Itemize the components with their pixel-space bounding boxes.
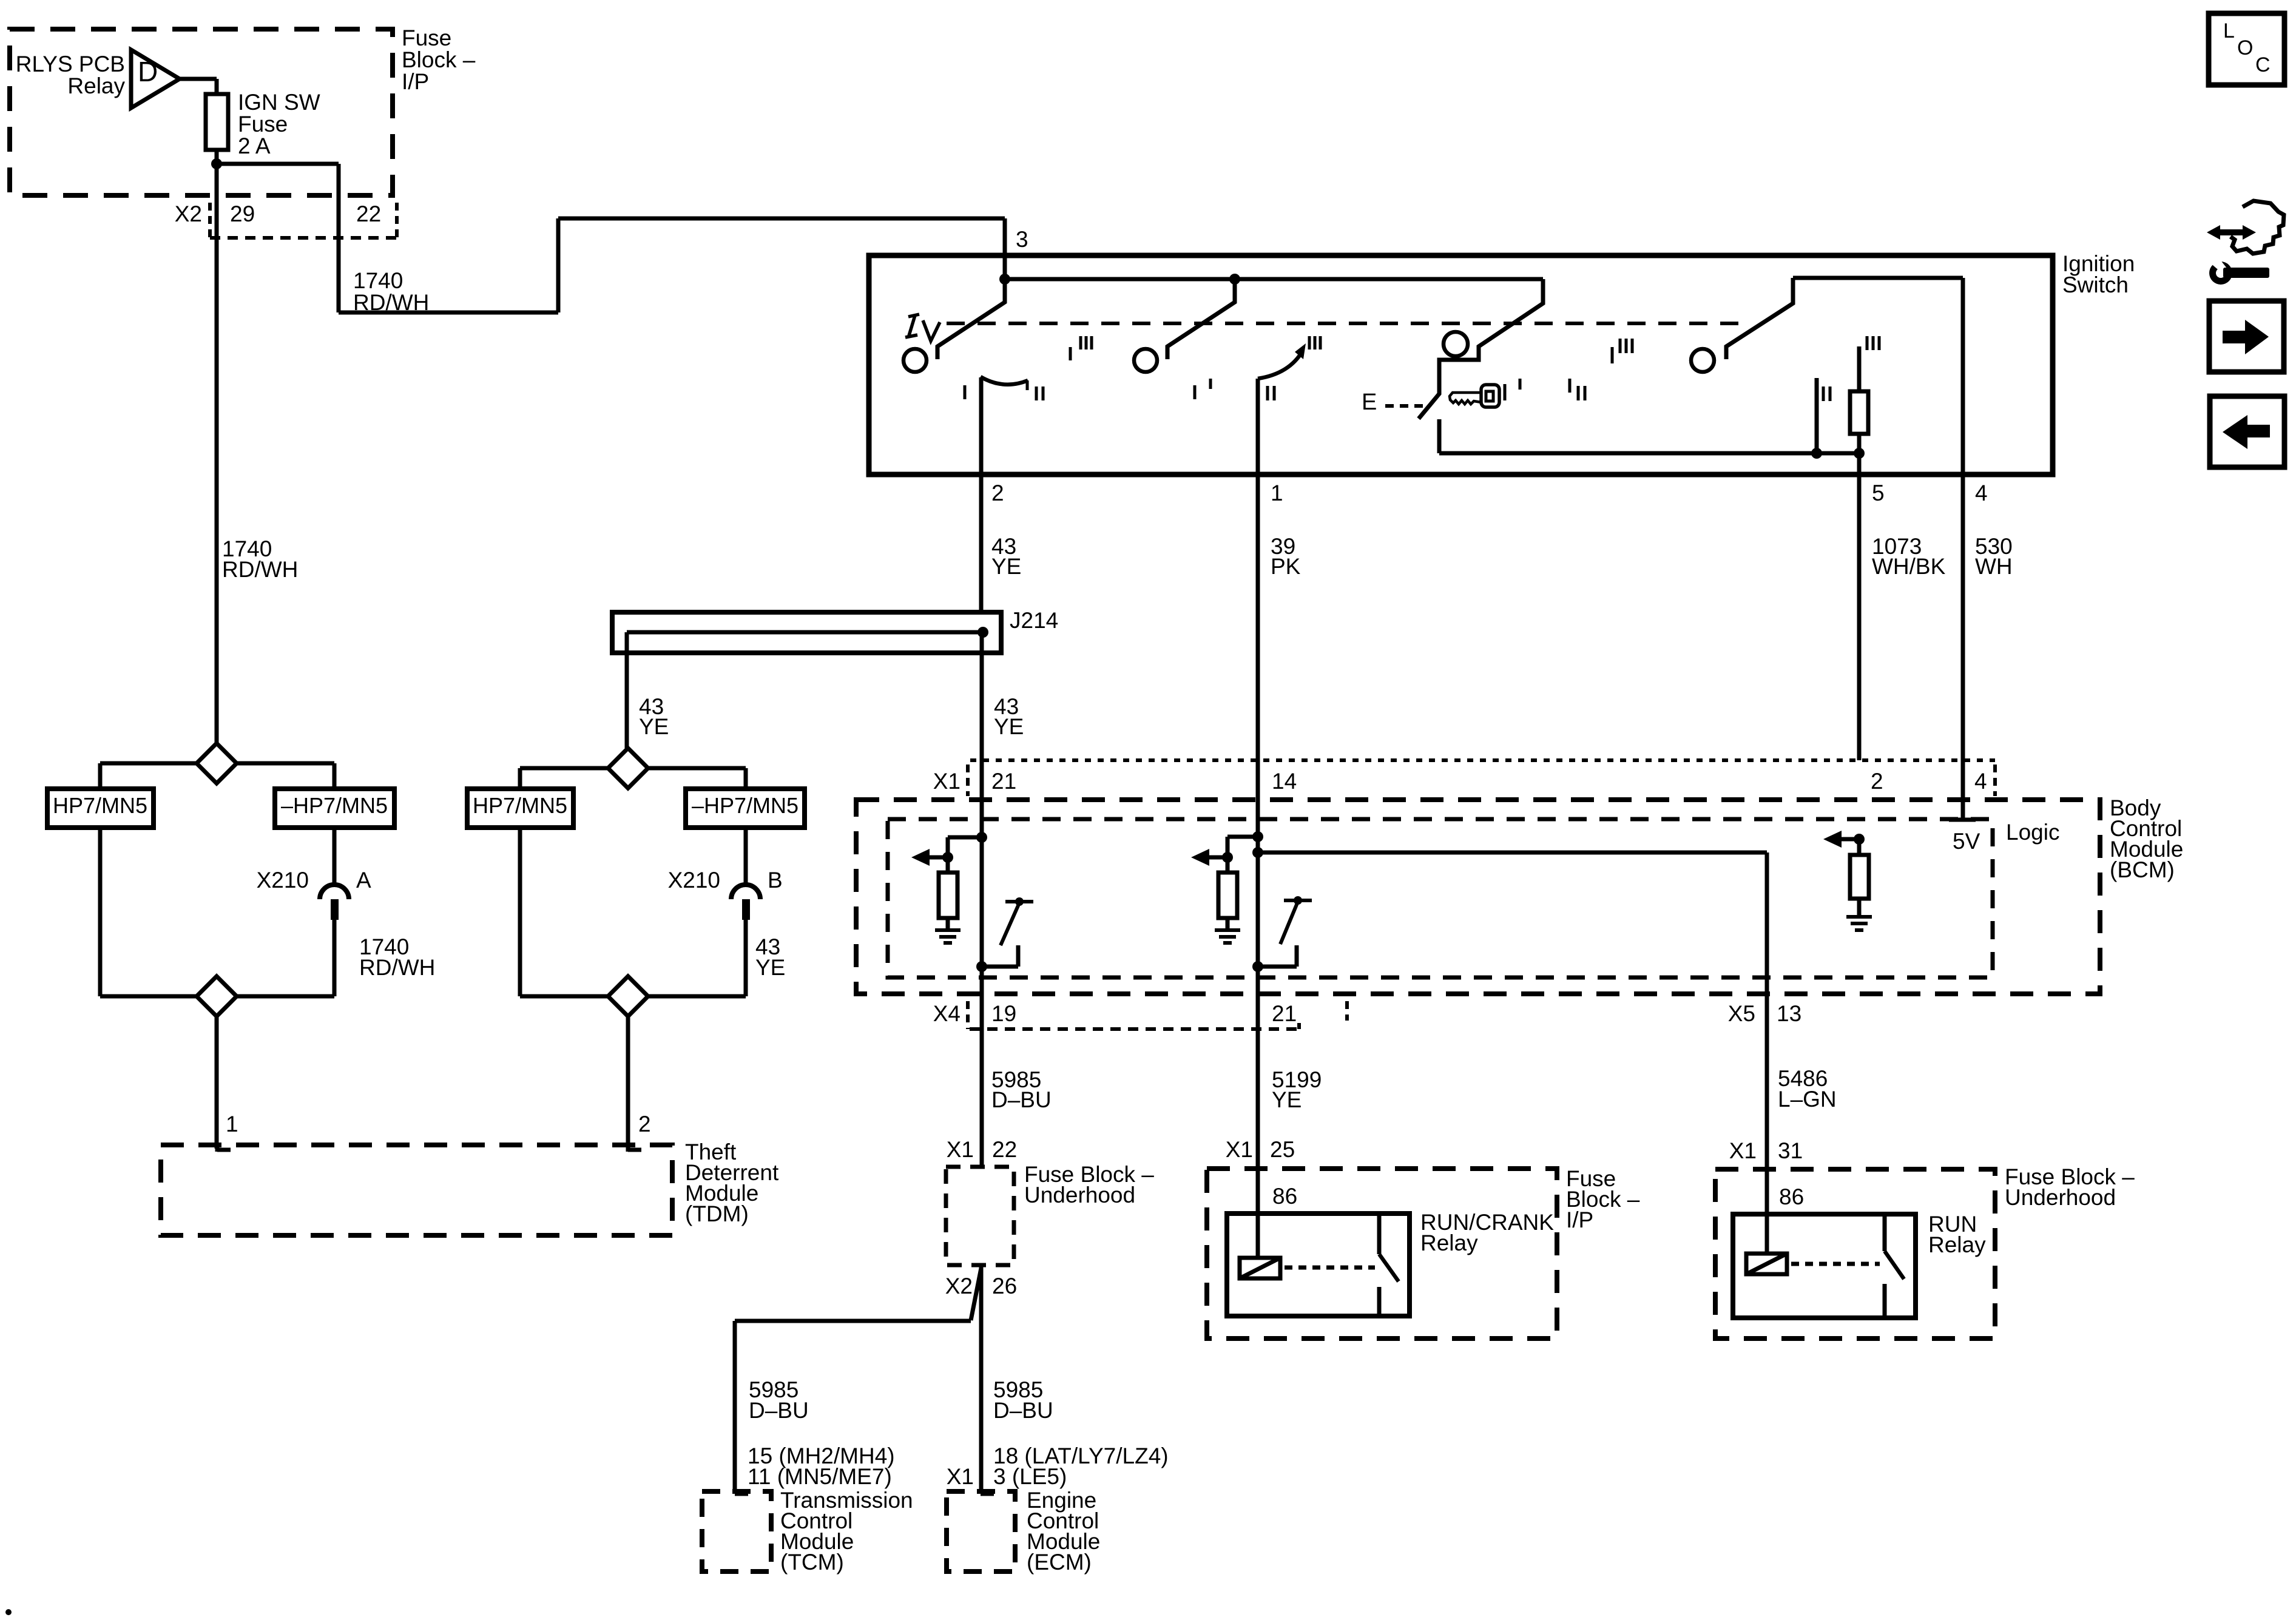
svg-text:1: 1 (226, 1112, 238, 1136)
svg-text:X1: X1 (947, 1464, 974, 1489)
svg-text:YE: YE (991, 554, 1021, 579)
svg-text:Underhood: Underhood (1024, 1183, 1135, 1207)
svg-text:Switch: Switch (2062, 272, 2129, 297)
svg-text:WH: WH (1975, 554, 2013, 579)
svg-text:(TCM): (TCM) (780, 1550, 844, 1575)
svg-text:1740: 1740 (353, 268, 403, 293)
svg-text:14: 14 (1272, 769, 1297, 794)
svg-text:A: A (356, 868, 371, 893)
svg-text:IGN SW: IGN SW (238, 90, 320, 115)
svg-text:X1: X1 (933, 769, 961, 794)
svg-text:(ECM): (ECM) (1027, 1550, 1092, 1575)
svg-text:X5: X5 (1728, 1001, 1755, 1026)
svg-text:2 A: 2 A (238, 133, 271, 158)
svg-text:D–BU: D–BU (749, 1398, 809, 1423)
svg-text:X4: X4 (933, 1001, 961, 1026)
svg-text:I/P: I/P (1566, 1207, 1593, 1232)
svg-text:25: 25 (1270, 1137, 1295, 1162)
svg-text:RD/WH: RD/WH (222, 557, 298, 582)
svg-text:3: 3 (1016, 227, 1028, 252)
svg-text:5: 5 (1872, 481, 1885, 505)
svg-text:22: 22 (992, 1137, 1017, 1162)
svg-text:D–BU: D–BU (991, 1087, 1052, 1112)
svg-text:WH/BK: WH/BK (1872, 554, 1946, 579)
svg-text:Logic: Logic (2006, 820, 2059, 845)
svg-text:29: 29 (230, 201, 255, 226)
svg-text:4: 4 (1975, 481, 1988, 505)
svg-text:–HP7/MN5: –HP7/MN5 (281, 793, 388, 818)
svg-text:D: D (138, 56, 158, 87)
svg-text:X1: X1 (1729, 1138, 1757, 1163)
svg-text:YE: YE (755, 955, 785, 980)
svg-text:E: E (1362, 390, 1377, 415)
svg-text:X2: X2 (175, 201, 202, 226)
svg-text:J214: J214 (1010, 608, 1058, 633)
svg-text:X1: X1 (947, 1137, 974, 1162)
svg-text:Relay: Relay (1420, 1230, 1478, 1255)
svg-text:–HP7/MN5: –HP7/MN5 (692, 793, 799, 818)
svg-text:YE: YE (994, 714, 1024, 739)
svg-text:4: 4 (1974, 769, 1987, 794)
svg-text:26: 26 (992, 1274, 1017, 1298)
svg-text:5V: 5V (1953, 829, 1980, 854)
svg-text:(BCM): (BCM) (2110, 857, 2175, 882)
svg-text:Block –: Block – (402, 47, 476, 72)
svg-text:Fuse: Fuse (402, 25, 451, 50)
svg-text:C: C (2255, 53, 2271, 76)
svg-text:L: L (2223, 19, 2235, 42)
svg-text:X1: X1 (1226, 1137, 1253, 1162)
svg-text:2: 2 (991, 481, 1004, 505)
svg-text:Underhood: Underhood (2005, 1185, 2116, 1210)
svg-text:1: 1 (1271, 481, 1283, 505)
svg-text:X210: X210 (257, 868, 309, 893)
svg-text:RD/WH: RD/WH (353, 290, 429, 315)
svg-text:HP7/MN5: HP7/MN5 (473, 793, 567, 818)
svg-text:O: O (2237, 36, 2253, 59)
svg-text:D–BU: D–BU (993, 1398, 1053, 1423)
svg-text:3 (LE5): 3 (LE5) (993, 1464, 1067, 1489)
svg-text:Relay: Relay (1928, 1232, 1986, 1257)
svg-text:X2: X2 (945, 1274, 973, 1298)
svg-text:RLYS PCB: RLYS PCB (16, 52, 125, 76)
svg-text:Relay: Relay (67, 73, 125, 98)
svg-text:I/P: I/P (402, 69, 429, 94)
svg-text:YE: YE (639, 714, 669, 739)
svg-text:L–GN: L–GN (1778, 1087, 1837, 1112)
svg-text:YE: YE (1272, 1087, 1302, 1112)
svg-text:Fuse: Fuse (238, 112, 288, 137)
svg-text:HP7/MN5: HP7/MN5 (53, 793, 147, 818)
svg-text:2: 2 (638, 1112, 651, 1136)
svg-text:(TDM): (TDM) (685, 1201, 749, 1226)
svg-text:21: 21 (991, 769, 1016, 794)
svg-text:2: 2 (1871, 769, 1883, 794)
svg-text:B: B (768, 868, 783, 893)
svg-text:X210: X210 (668, 868, 720, 893)
svg-text:86: 86 (1779, 1184, 1804, 1209)
svg-text:RD/WH: RD/WH (359, 955, 435, 980)
svg-text:13: 13 (1777, 1001, 1801, 1026)
svg-text:19: 19 (991, 1001, 1016, 1026)
svg-text:22: 22 (356, 201, 381, 226)
svg-text:31: 31 (1778, 1138, 1803, 1163)
svg-text:21: 21 (1272, 1001, 1297, 1026)
svg-text:PK: PK (1271, 554, 1301, 579)
svg-text:86: 86 (1272, 1184, 1297, 1209)
svg-text:11 (MN5/ME7): 11 (MN5/ME7) (748, 1464, 892, 1489)
